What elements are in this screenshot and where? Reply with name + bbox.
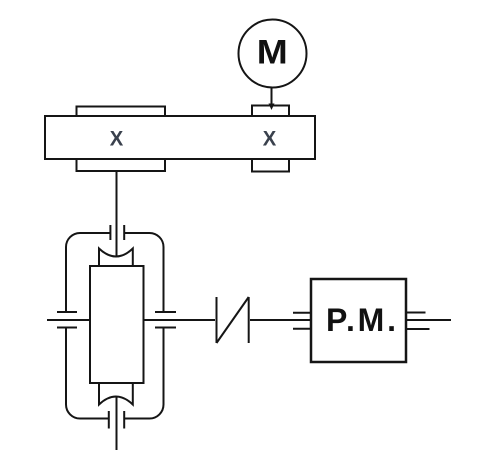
pulley P1 bottom flange [77,159,166,171]
shaft coupling to P.M. [250,319,311,321]
top bearing tick right [123,225,125,240]
svg-text:M: M [257,34,288,72]
P.M. left upper stub [293,312,311,314]
right bearing tick lower [155,327,176,329]
arrowhead on motor shaft [269,104,275,111]
P.M. right main shaft [406,319,451,321]
P.M. machine box [311,279,406,362]
pulley P1 top flange [77,107,166,117]
coupling right bar [248,297,250,343]
left bearing tick lower [57,327,77,329]
top bearing tick left [109,225,111,240]
left bearing tick upper [57,311,77,313]
worm shaft lower end [116,397,118,450]
worm body rectangle [90,266,144,383]
coupling left bar [216,297,218,343]
output shaft left stub [47,319,90,321]
shaft motor to pulley P2 [271,87,273,107]
pulley P2 bottom flange [252,159,289,172]
coupling diagonal [217,297,249,343]
svg-text:X: X [263,128,277,151]
bottom bearing tick right [123,411,125,429]
P.M. left lower stub [293,328,311,330]
worm gearbox housing [66,233,164,419]
shaft belt to worm [116,171,118,256]
output shaft mid segment [144,319,216,321]
motor M1 circle [239,20,307,88]
pulley P2 top flange [252,106,289,117]
svg-text:X: X [110,128,124,151]
worm top engagement arc [99,249,133,267]
worm bottom engagement arc [99,383,133,405]
right bearing tick upper [155,311,176,313]
svg-text:P.M.: P.M. [326,302,399,338]
bottom bearing tick left [108,411,110,429]
belt casing rectangle [45,116,315,159]
P.M. right upper stub [406,312,426,314]
P.M. right lower stub [406,328,430,330]
